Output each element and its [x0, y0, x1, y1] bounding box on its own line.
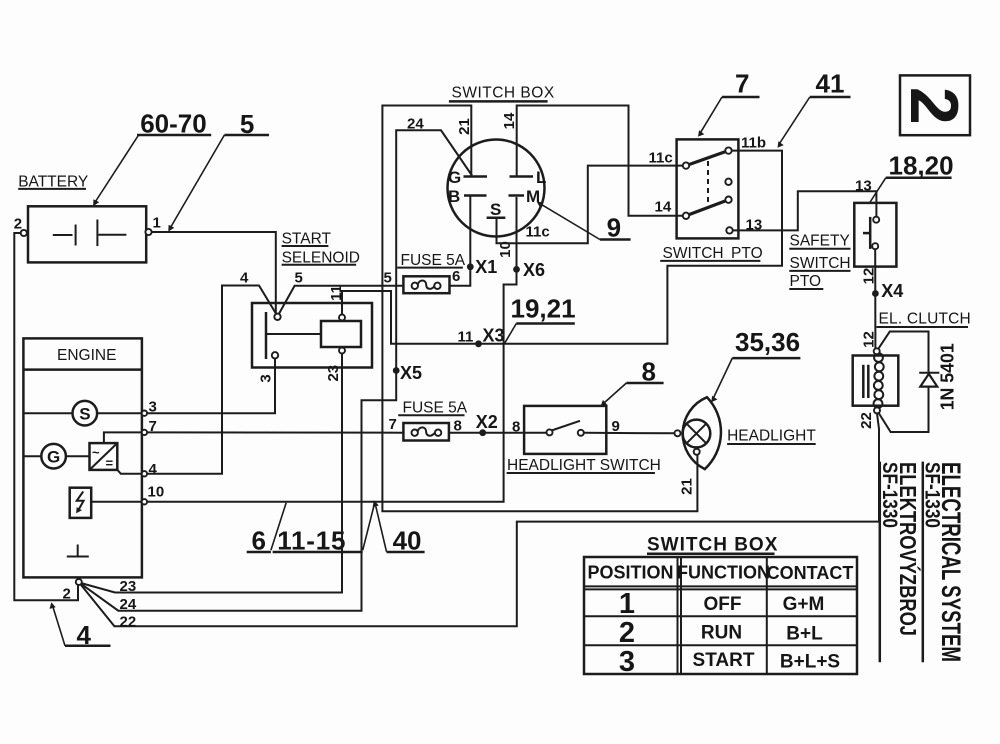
switch PTO box	[660, 139, 762, 261]
engine terminal 3	[142, 411, 147, 416]
engine terminal 7	[142, 430, 147, 435]
svg-text:X2: X2	[476, 412, 498, 432]
svg-text:FUSE 5A: FUSE 5A	[403, 400, 468, 417]
svg-text:35,36: 35,36	[735, 327, 800, 357]
svg-text:CONTACT: CONTACT	[767, 563, 854, 583]
battery terminal 1	[145, 229, 151, 235]
wire 5 selenoid to fuse F1	[279, 286, 404, 314]
wire 7 engine to fuse F2	[147, 431, 403, 433]
svg-text:X1: X1	[475, 257, 497, 277]
label 60-70	[93, 108, 211, 206]
svg-text:1: 1	[153, 215, 161, 232]
engine terminal 2 (ground)	[76, 579, 82, 585]
title block rule 2	[879, 462, 882, 663]
svg-text:B: B	[448, 187, 460, 206]
table row 2	[619, 617, 823, 649]
PTO contact mid	[725, 179, 731, 185]
svg-text:9: 9	[607, 213, 621, 243]
svg-text:ENGINE: ENGINE	[57, 347, 116, 364]
wire 22 clutch to engine ground	[81, 413, 879, 626]
svg-text:24: 24	[120, 596, 137, 613]
svg-text:11: 11	[458, 329, 474, 346]
label 9 leader	[537, 202, 631, 243]
safety switch PTO box	[789, 203, 896, 290]
svg-text:RUN: RUN	[701, 623, 742, 644]
PTO contact 11b	[725, 147, 731, 153]
svg-text:2: 2	[619, 617, 635, 649]
title block rule 1	[922, 462, 925, 663]
svg-text:FUSE 5A: FUSE 5A	[401, 252, 466, 269]
table row 3	[619, 646, 840, 678]
svg-text:FUNCTION: FUNCTION	[677, 563, 770, 583]
label 40	[373, 500, 425, 555]
ignition spark unit	[70, 488, 142, 518]
headlight lamp	[683, 420, 711, 448]
svg-text:S: S	[490, 200, 501, 219]
label 4 (engine leader)	[50, 602, 111, 650]
svg-text:3: 3	[619, 646, 635, 678]
node X1	[467, 257, 497, 277]
svg-text:3: 3	[257, 374, 274, 382]
wire battery negative	[14, 233, 78, 600]
fuse F1 5A	[397, 252, 466, 293]
engine terminal 4	[142, 471, 147, 476]
PTO terminal 11c	[683, 162, 689, 168]
table row 1	[619, 588, 824, 620]
wire 8 fuse F2 to headlight switch	[449, 432, 547, 434]
clutch core bars	[863, 365, 868, 398]
terminal L	[510, 168, 547, 187]
headlight lens	[683, 397, 721, 469]
label 18,20	[870, 151, 954, 203]
svg-text:1: 1	[619, 588, 635, 620]
wire 4 engine to selenoid	[147, 286, 276, 474]
headlight switch blade	[552, 421, 581, 431]
svg-text:23: 23	[120, 578, 137, 595]
wire 11 selenoid to PTO 11b	[342, 151, 782, 344]
svg-text:EL. CLUTCH: EL. CLUTCH	[879, 311, 971, 328]
label 5 (battery wire)	[168, 109, 269, 232]
wire 9 switch to headlight	[584, 432, 675, 435]
svg-text:22: 22	[858, 412, 875, 429]
node X4	[872, 281, 903, 301]
wire 14 L to PTO	[517, 106, 683, 216]
svg-text:=: =	[106, 456, 114, 471]
headlight terminal bottom	[694, 449, 700, 455]
svg-text:X3: X3	[483, 326, 505, 346]
svg-text:HEADLIGHT: HEADLIGHT	[727, 428, 816, 445]
svg-text:SELENOID: SELENOID	[282, 249, 360, 266]
svg-text:SWITCH: SWITCH	[790, 255, 851, 272]
selenoid coil	[321, 321, 361, 347]
sheet number box 2	[896, 75, 972, 135]
svg-text:G+M: G+M	[783, 594, 825, 615]
svg-text:7: 7	[735, 69, 749, 99]
svg-text:SF-1330: SF-1330	[878, 462, 901, 528]
label 6	[247, 503, 287, 556]
PTO mechanical link (dashed)	[707, 161, 709, 209]
headlight terminal left	[675, 430, 681, 436]
safety switch contact	[863, 217, 870, 249]
svg-text:G: G	[448, 168, 461, 187]
table frame	[584, 557, 857, 674]
battery BAT	[28, 206, 146, 262]
switch box (key switch) circle	[448, 84, 555, 236]
PTO blade upper	[686, 150, 731, 166]
svg-text:6: 6	[452, 268, 460, 285]
battery terminal 2	[21, 230, 27, 236]
node X5	[393, 363, 422, 383]
generator G symbol	[23, 444, 89, 469]
svg-text:PTO: PTO	[790, 273, 822, 290]
selenoid coil terminal 11	[339, 315, 345, 321]
svg-text:SAFETY: SAFETY	[790, 232, 850, 249]
engine internal ground	[67, 545, 89, 557]
svg-text:L: L	[536, 168, 546, 187]
terminal B	[448, 187, 487, 206]
node X3	[458, 326, 505, 348]
svg-text:G: G	[47, 448, 60, 467]
svg-text:22: 22	[120, 613, 137, 630]
svg-text:S: S	[79, 405, 90, 424]
PTO terminal 14	[683, 213, 689, 219]
terminal M	[509, 187, 541, 206]
wire 24 G to engine ground	[81, 130, 472, 610]
label HEADLIGHT	[727, 428, 816, 445]
label 41 (leader)	[778, 69, 851, 148]
label 8 (leader)	[601, 356, 664, 406]
label 11-15	[273, 503, 375, 555]
PTO contact 13	[726, 227, 732, 233]
svg-text:4: 4	[149, 461, 158, 478]
svg-text:41: 41	[816, 69, 845, 99]
wire 11c S to PTO	[497, 166, 683, 244]
svg-text:21: 21	[679, 478, 696, 495]
svg-text:11c: 11c	[526, 224, 550, 241]
headlight switch box	[507, 406, 661, 474]
start selenoid box	[252, 231, 372, 368]
rectifier (regulator)	[90, 432, 142, 473]
svg-text:B+L: B+L	[786, 624, 823, 645]
svg-text:2: 2	[14, 216, 22, 233]
selenoid terminal 3	[272, 352, 278, 358]
svg-text:X6: X6	[523, 260, 545, 280]
clutch coil	[874, 353, 884, 408]
diode branch wire	[878, 332, 928, 433]
PTO contact run	[725, 197, 731, 203]
safety terminal 13	[873, 217, 879, 223]
svg-text:HEADLIGHT SWITCH: HEADLIGHT SWITCH	[507, 457, 661, 474]
clutch terminal 22	[874, 407, 880, 413]
engine terminal 10	[142, 499, 147, 504]
svg-text:1N 5401: 1N 5401	[938, 343, 958, 410]
svg-text:2: 2	[896, 87, 972, 125]
svg-text:14: 14	[501, 112, 518, 129]
PTO blade lower	[686, 199, 731, 216]
svg-text:B+L+S: B+L+S	[780, 652, 840, 673]
svg-text:SWITCH BOX: SWITCH BOX	[452, 84, 555, 101]
label 7 (PTO leader)	[698, 69, 760, 137]
svg-text:SWITCH PTO: SWITCH PTO	[663, 245, 763, 262]
node X6	[513, 260, 545, 280]
svg-text:4: 4	[240, 270, 249, 287]
svg-text:X4: X4	[881, 281, 903, 301]
label 35,36	[711, 327, 800, 402]
engine block	[23, 338, 141, 577]
svg-text:BATTERY: BATTERY	[18, 173, 88, 190]
svg-text:18,20: 18,20	[889, 151, 954, 181]
label BATTERY	[18, 173, 88, 190]
selenoid coil terminal 23	[339, 348, 345, 354]
terminal S	[487, 200, 506, 219]
svg-text:POSITION: POSITION	[587, 563, 673, 583]
svg-text:5: 5	[295, 270, 303, 287]
svg-text:10: 10	[148, 484, 165, 501]
svg-text:11b: 11b	[741, 135, 766, 152]
fuse F2 5A	[398, 400, 468, 441]
label 19,21	[505, 294, 576, 344]
wire 23 selenoid to engine ground	[81, 354, 342, 593]
wire 6 fuse F1 to B	[450, 197, 471, 286]
svg-text:23: 23	[325, 365, 342, 382]
terminal G	[448, 168, 487, 187]
svg-text:7: 7	[389, 416, 397, 433]
safety terminal 12	[872, 243, 878, 249]
node X2	[476, 412, 498, 436]
headlight switch terminal 9	[578, 430, 584, 436]
starter S symbol	[23, 401, 141, 426]
wire 3 engine to selenoid	[147, 359, 275, 414]
svg-text:X5: X5	[400, 363, 422, 383]
clutch terminal 12	[874, 348, 880, 354]
svg-text:OFF: OFF	[704, 594, 742, 615]
wire 21 G to headlight	[382, 106, 697, 512]
svg-text:SWITCH BOX: SWITCH BOX	[647, 535, 778, 556]
el. clutch label	[876, 311, 971, 328]
svg-text:START: START	[693, 650, 755, 671]
el. clutch box	[853, 356, 899, 406]
svg-text:14: 14	[655, 199, 672, 216]
headlight switch terminal 8	[547, 429, 553, 435]
svg-text:~: ~	[92, 445, 100, 460]
selenoid contact bar	[266, 312, 321, 359]
svg-text:11c: 11c	[649, 150, 673, 167]
wire 10 engine to M	[147, 197, 516, 502]
svg-text:START: START	[282, 231, 332, 248]
table SWITCH BOX title	[647, 535, 778, 556]
svg-text:19,21: 19,21	[511, 294, 576, 324]
svg-text:5: 5	[384, 270, 392, 287]
wire 5 battery to selenoid	[152, 232, 276, 314]
selenoid terminal 5/4	[274, 314, 280, 320]
wire 12 safety to clutch	[874, 249, 876, 348]
diode 1N 5401	[919, 373, 939, 387]
wire 13 PTO to safety switch	[733, 191, 877, 230]
